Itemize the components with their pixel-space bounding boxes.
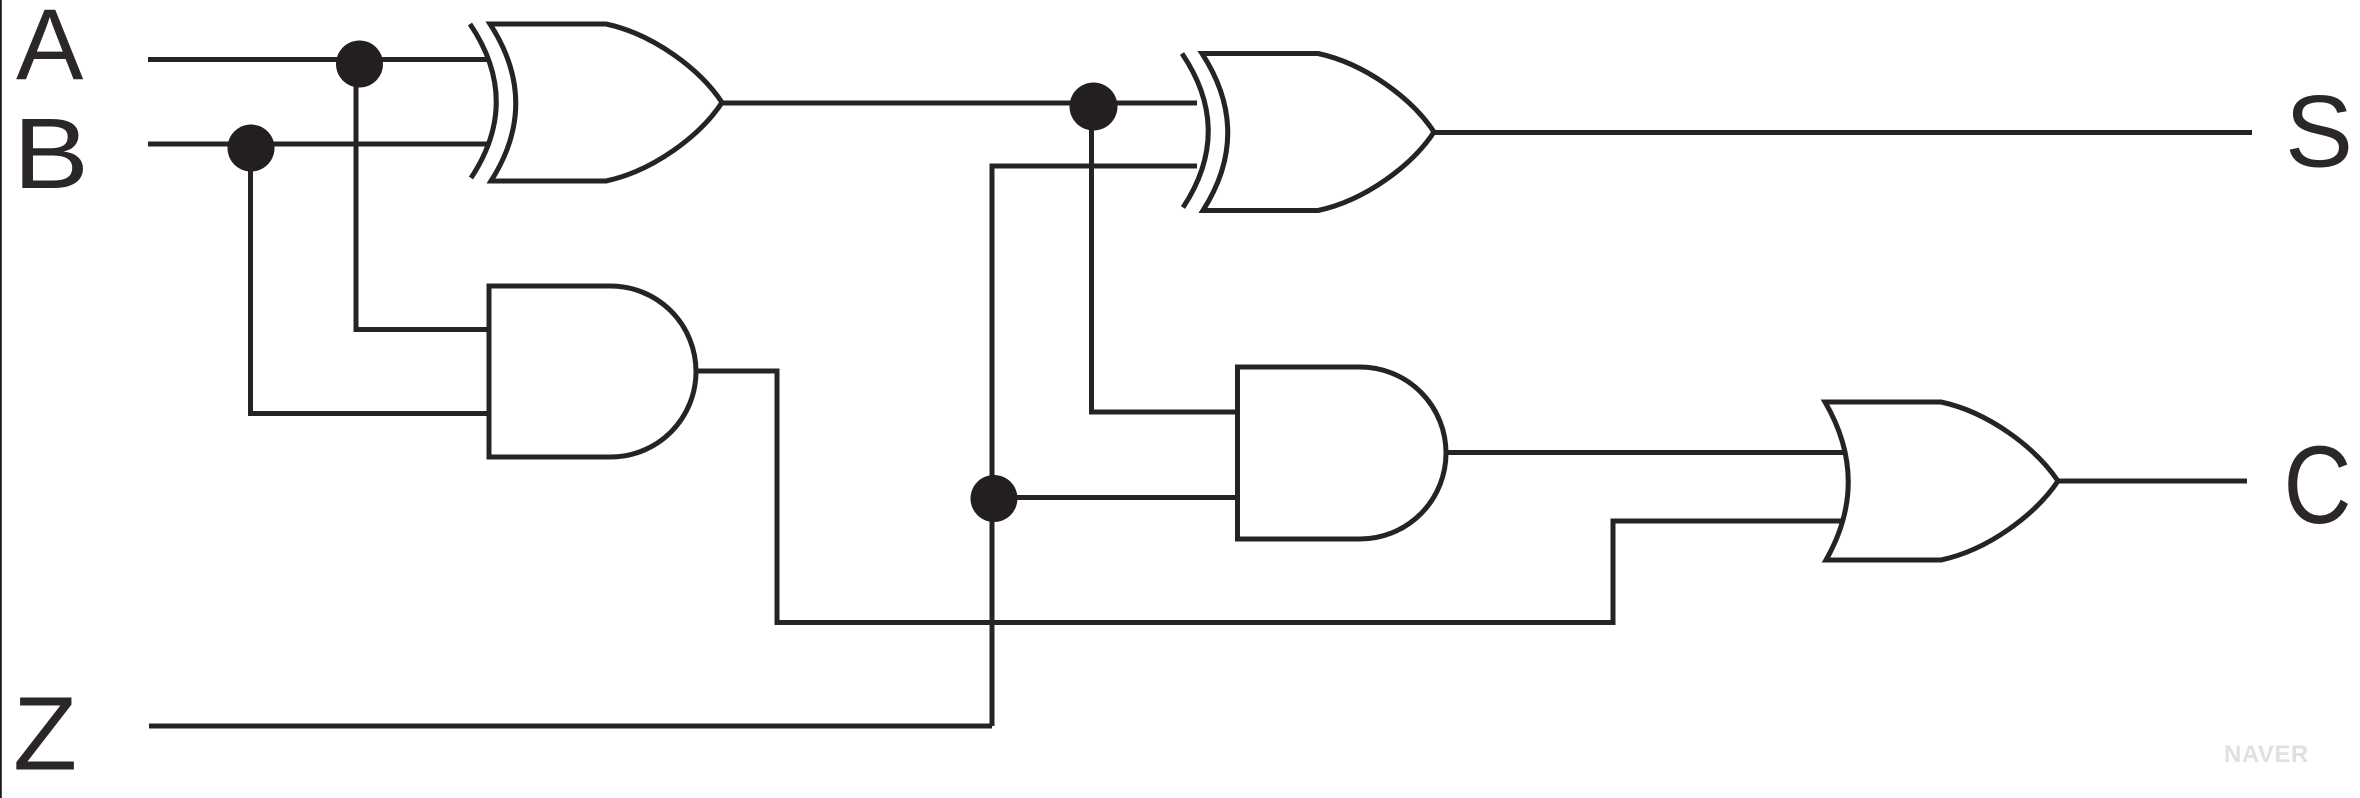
wire A branch to AND1 <box>356 62 492 330</box>
wire input B <box>148 142 487 147</box>
svg-text:C: C <box>2284 424 2352 547</box>
svg-text:S: S <box>2285 75 2353 189</box>
svg-text:NAVER: NAVER <box>2224 741 2309 768</box>
junction node on B line <box>228 125 275 172</box>
wire Z vertical riser to XOR2 <box>992 166 1197 726</box>
wire AND2 output to OR top input <box>1444 450 1848 455</box>
and gate U3 <box>489 286 696 457</box>
or gate U5 body <box>1825 402 2058 560</box>
wire B branch to AND1 <box>251 146 493 414</box>
wire AND1 output to OR bottom input <box>694 371 1845 623</box>
junction node on A line <box>336 41 383 88</box>
xor gate U1 input arc <box>470 24 496 178</box>
and gate U4 <box>1238 367 1447 539</box>
svg-text:B: B <box>13 98 89 210</box>
xor gate U2 input arc <box>1182 54 1208 208</box>
wire node D branch to AND2 bottom input <box>994 495 1240 500</box>
xor gate U1 body <box>490 24 722 181</box>
xor gate U2 body <box>1202 54 1434 211</box>
wire OR output to C <box>2057 479 2247 484</box>
svg-text:A: A <box>16 0 84 102</box>
wire XOR2 output to S <box>1433 130 2252 135</box>
wire node C branch to AND2 top input <box>1092 104 1241 412</box>
junction node on Z riser <box>971 475 1018 522</box>
page left edge border <box>0 0 2 798</box>
wire input Z horizontal <box>149 724 992 729</box>
junction node on XOR1 output <box>1070 83 1118 131</box>
wire input A <box>148 57 488 62</box>
svg-text:Z: Z <box>13 676 77 793</box>
wire XOR1 output to XOR2 <box>721 101 1197 106</box>
